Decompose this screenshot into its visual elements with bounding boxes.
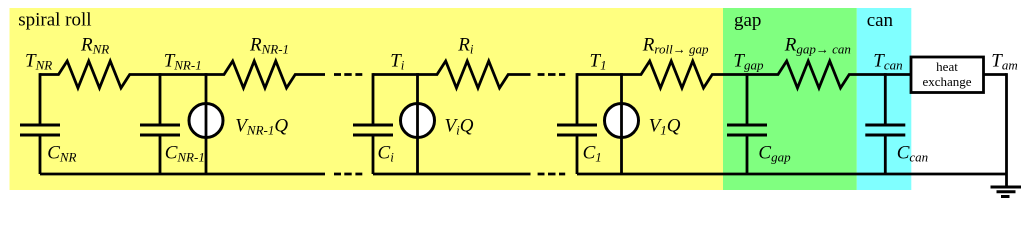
svg-text:spiral roll: spiral roll	[18, 10, 91, 31]
svg-text:heat: heat	[936, 59, 958, 74]
svg-text:ViQ: ViQ	[445, 116, 474, 138]
svg-text:can: can	[867, 10, 894, 31]
svg-text:exchange: exchange	[922, 74, 971, 89]
svg-text:gap: gap	[734, 10, 761, 31]
